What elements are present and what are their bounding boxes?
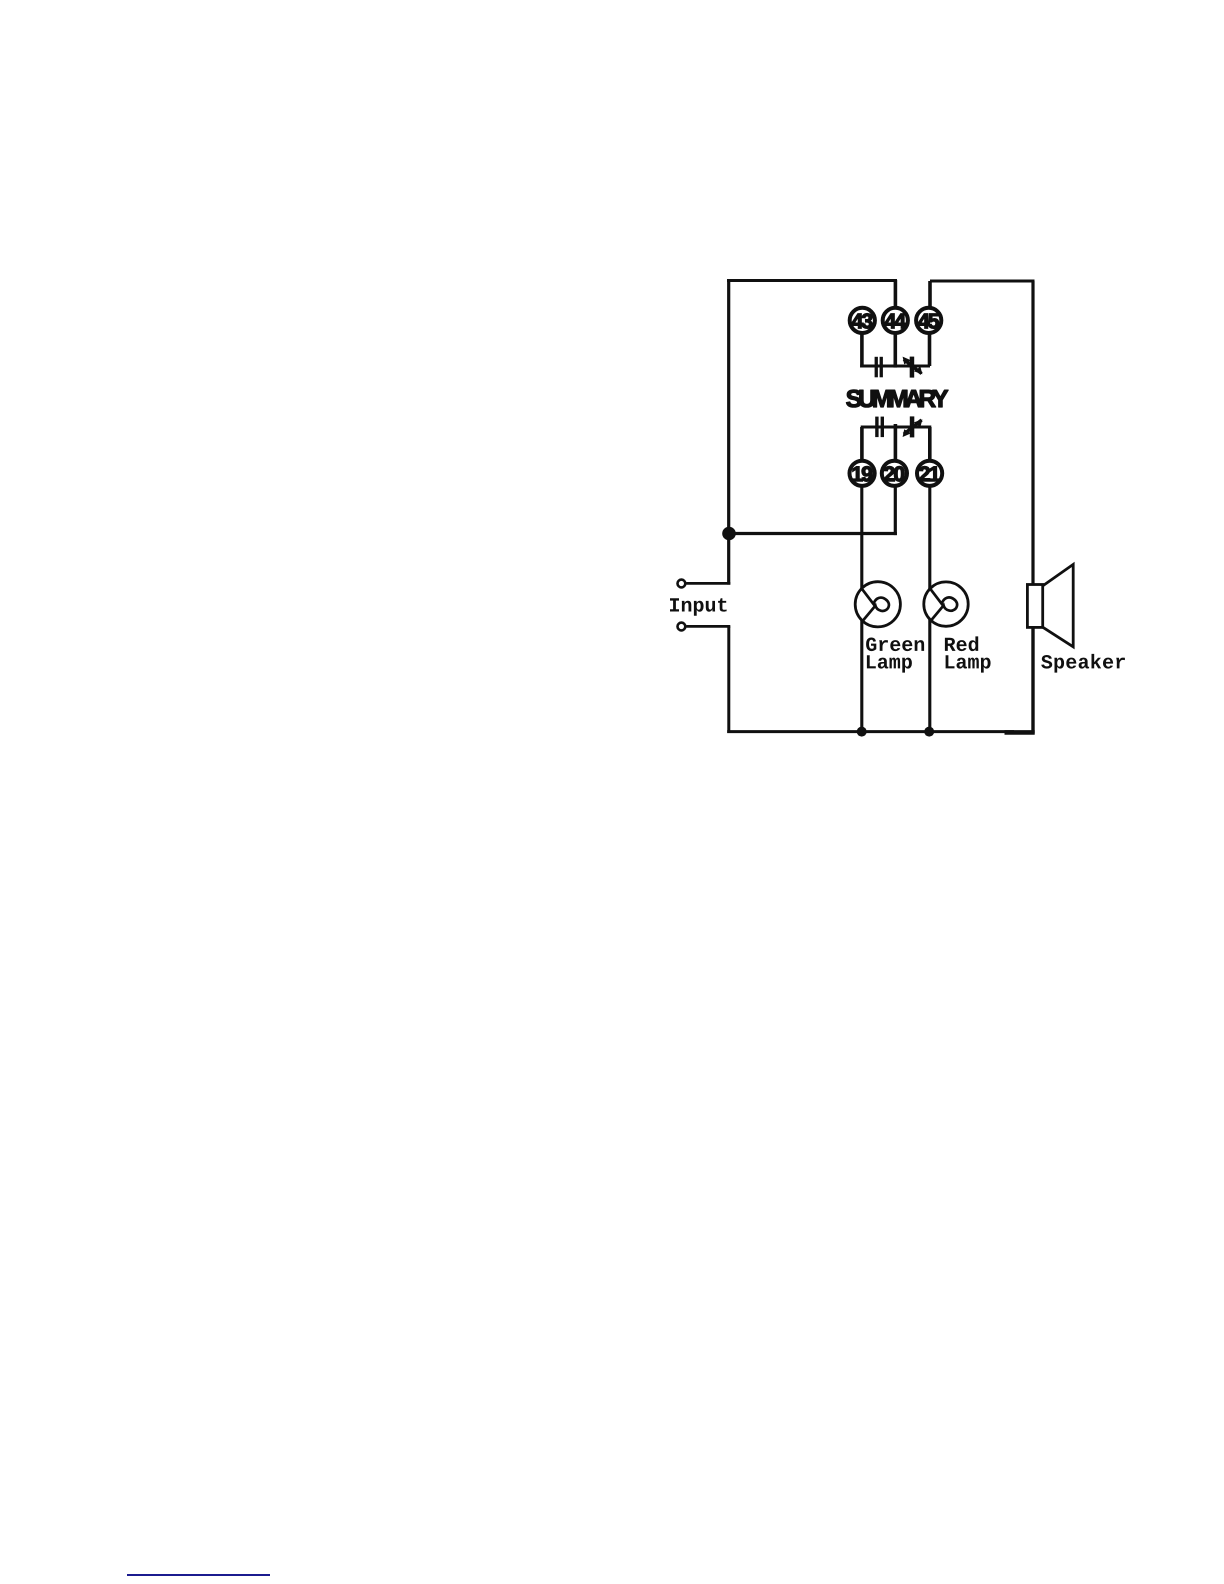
NO contact (top, terminals 43-44) [875,357,883,378]
wire above terminal 19 [860,427,864,461]
label Red Lamp [945,636,978,651]
wire left vertical (input bus down) [727,626,730,733]
NO contact (bottom, terminals 19-20) [875,417,884,438]
lamp HL red [924,582,968,626]
wire below terminal 43 [860,333,864,368]
terminal 21 [917,461,942,486]
wire below terminal 21 to red lamp [928,486,931,732]
label Green Lamp [866,638,924,652]
wire above terminal 21 [928,427,932,461]
lamp HL green [855,582,900,627]
wire below terminal 19 to green lamp [860,486,863,732]
wire top-left horizontal [727,279,897,282]
wire below terminal 44 [893,333,897,368]
wire below terminal 20 to junction bus [894,486,897,535]
wire bottom horizontal [727,730,1014,733]
NC contact (top, terminals 44-45) [903,357,923,378]
junction node A [722,527,736,541]
wire top into terminal 44 [894,280,898,307]
footnote rule [127,1574,270,1576]
wire top-right horizontal [930,280,1035,283]
terminal 44 [883,308,908,333]
wire input lower [686,625,730,628]
wire speaker down [1031,627,1034,733]
terminal 45 [916,308,941,333]
NC contact (bottom, terminals 20-21) [903,416,923,437]
terminal 19 [850,461,875,486]
label Speaker [1041,654,1125,673]
wire top into terminal 45 [928,281,932,307]
input terminal (upper) [678,580,686,588]
speaker LS1 [1027,564,1073,646]
terminal 20 [882,461,907,486]
wire above terminal 20 [894,424,898,461]
wire bottom speaker corner [1005,730,1035,735]
wire junction horizontal to node A [729,532,897,535]
wire below terminal 45 [928,333,932,366]
wire left vertical (input bus up) [727,279,730,585]
wire bottom contact horizontal [861,425,932,428]
relay coil label SUMMARY [846,390,948,407]
wire right vertical to speaker [1031,281,1034,585]
wire top contact horizontal [860,364,930,367]
junction node C (red lamp to bottom bus) [924,727,934,737]
terminal 43 [850,308,875,333]
input terminal (lower) [678,623,686,631]
wire input upper [686,582,730,585]
junction node B (green lamp to bottom bus) [857,727,867,737]
label Input [670,598,727,616]
